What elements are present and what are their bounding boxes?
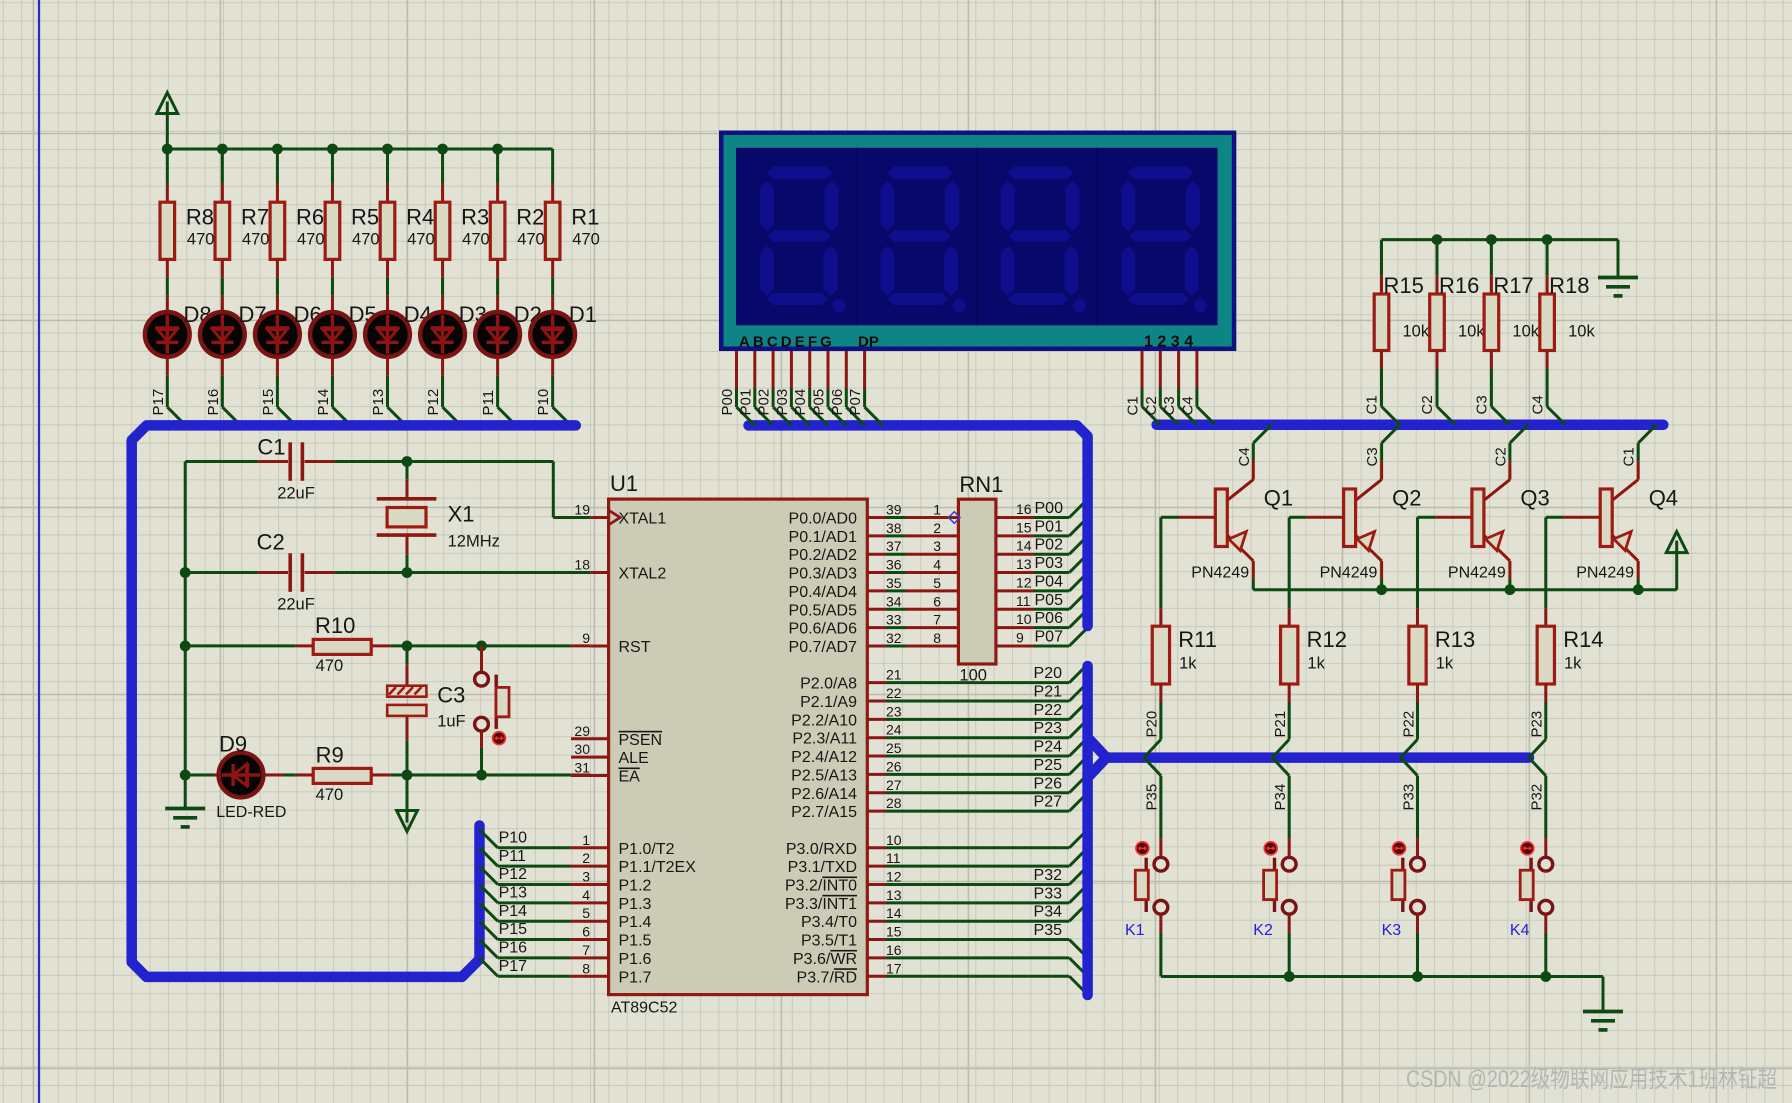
svg-text:15: 15 <box>886 924 902 940</box>
svg-text:32: 32 <box>886 630 902 646</box>
svg-text:30: 30 <box>574 741 590 757</box>
svg-text:P17: P17 <box>499 958 528 975</box>
svg-text:CSDN @2022级物联网应用技术1班林钲超: CSDN @2022级物联网应用技术1班林钲超 <box>1406 1066 1777 1093</box>
junction <box>1486 234 1497 245</box>
svg-text:P04: P04 <box>792 389 809 416</box>
pin P1.4 (5) wire from bus, net P14 <box>480 903 652 931</box>
pin P0.6/AD6 (33) <box>789 612 959 638</box>
capacitor C2 22uF <box>257 530 315 614</box>
wire bus to key K4, net P32 <box>1529 758 1546 839</box>
svg-text:R13: R13 <box>1435 627 1475 652</box>
pin ALE (30) <box>571 741 649 767</box>
svg-text:P1.3: P1.3 <box>619 896 652 913</box>
svg-text:1k: 1k <box>1436 655 1454 673</box>
junction <box>402 641 413 652</box>
svg-text:35: 35 <box>886 575 902 591</box>
wire emitter rail <box>1253 588 1676 591</box>
pin P2.6/A14 (27) wire to bus, net P26 <box>791 774 1087 802</box>
wire R4 to D4 <box>386 259 389 312</box>
junction <box>1542 234 1553 245</box>
svg-text:K2: K2 <box>1253 922 1273 939</box>
pin PSEN (29) <box>571 723 662 749</box>
RN1 pin 6/11 wire, net P05 <box>996 591 1088 609</box>
svg-text:470: 470 <box>187 231 215 249</box>
junction <box>180 641 191 652</box>
svg-text:R9: R9 <box>316 742 344 767</box>
svg-text:U1: U1 <box>610 471 638 496</box>
wire bus to key K1, net P35 <box>1144 758 1161 839</box>
svg-text:P06: P06 <box>1035 610 1064 627</box>
pin P3.5/T1 (15) <box>801 922 1088 958</box>
svg-text:5: 5 <box>933 575 941 591</box>
svg-text:8: 8 <box>933 630 941 646</box>
pin P0.3/AD3 (36) <box>789 557 959 583</box>
svg-text:P13: P13 <box>370 389 387 416</box>
svg-text:RN1: RN1 <box>959 472 1003 497</box>
svg-text:XTAL2: XTAL2 <box>619 566 667 583</box>
svg-text:2: 2 <box>582 850 590 866</box>
svg-text:P2.7/A15: P2.7/A15 <box>791 804 857 821</box>
svg-text:R15: R15 <box>1384 273 1424 298</box>
svg-text:11: 11 <box>886 850 901 866</box>
wire rail to R8 <box>166 149 169 202</box>
svg-text:8: 8 <box>582 960 590 976</box>
svg-text:9: 9 <box>1016 629 1024 645</box>
svg-text:C3: C3 <box>1161 396 1178 415</box>
wire D2 to bus, net P11 <box>498 356 516 425</box>
svg-text:22uF: 22uF <box>277 596 315 614</box>
svg-text:P0.5/AD5: P0.5/AD5 <box>789 602 858 619</box>
svg-text:2: 2 <box>933 520 941 536</box>
display common pin 1 wire, net C1 <box>1125 351 1161 425</box>
pin P0.1/AD1 (38) <box>789 520 959 546</box>
RN1 pin 8/9 wire, net P07 <box>996 628 1088 646</box>
capacitor C3 1uF (electrolytic) <box>387 646 465 775</box>
svg-text:5: 5 <box>582 905 590 921</box>
svg-text:P3.4/T0: P3.4/T0 <box>801 914 857 931</box>
svg-text:P3.2/INT0: P3.2/INT0 <box>785 878 857 895</box>
svg-text:19: 19 <box>574 502 590 518</box>
junction <box>1505 584 1516 595</box>
svg-text:P0.3/AD3: P0.3/AD3 <box>789 566 858 583</box>
svg-text:P02: P02 <box>756 389 773 416</box>
svg-text:16: 16 <box>886 942 902 958</box>
pin P1.7 (8) wire from bus, net P17 <box>480 958 652 986</box>
svg-text:7: 7 <box>933 612 941 628</box>
wire K3 to ground rail <box>1416 915 1419 977</box>
svg-text:28: 28 <box>886 795 902 811</box>
push button K3 <box>1382 838 1425 939</box>
RN1 pin 7/10 wire, net P06 <box>996 609 1088 627</box>
svg-text:16: 16 <box>1016 501 1032 517</box>
wire R5 to D5 <box>331 259 334 312</box>
svg-text:P12: P12 <box>425 389 442 416</box>
transistor Q2 PN4249 (PNP) <box>1289 486 1421 582</box>
ground (left) <box>165 775 205 827</box>
svg-text:P24: P24 <box>1034 739 1063 756</box>
junction <box>180 567 191 578</box>
svg-text:10k: 10k <box>1512 323 1539 341</box>
svg-text:C3: C3 <box>1364 447 1381 466</box>
pin P1.0/T2 (1) wire from bus, net P10 <box>480 829 675 857</box>
svg-text:P1.4: P1.4 <box>619 914 652 931</box>
pin XTAL1 (19) <box>574 502 666 528</box>
wire D4 to bus, net P13 <box>388 356 406 425</box>
svg-text:P2.4/A12: P2.4/A12 <box>791 749 857 766</box>
svg-text:15: 15 <box>1016 519 1032 535</box>
svg-text:P0.6/AD6: P0.6/AD6 <box>789 621 858 638</box>
pin P1.6 (7) wire from bus, net P16 <box>480 940 652 968</box>
wire Q3 base to R13 <box>1416 517 1419 609</box>
svg-text:AT89C52: AT89C52 <box>611 1000 678 1017</box>
svg-text:17: 17 <box>886 960 902 976</box>
svg-text:P21: P21 <box>1272 711 1289 738</box>
svg-text:9: 9 <box>582 630 590 646</box>
pin P2.5/A13 (26) wire to bus, net P25 <box>791 756 1087 784</box>
svg-text:P2.5/A13: P2.5/A13 <box>791 767 857 784</box>
bus P2/P3 vertical segment <box>1082 666 1093 995</box>
svg-text:470: 470 <box>407 231 435 249</box>
RN1 pin 5/12 wire, net P04 <box>996 573 1088 591</box>
wire RST row <box>185 644 590 647</box>
svg-text:C2: C2 <box>1492 447 1509 466</box>
bus top right (display commons) <box>1157 420 1664 431</box>
svg-text:1k: 1k <box>1564 655 1582 673</box>
transistor Q1 PN4249 (PNP) <box>1161 486 1293 582</box>
svg-text:R12: R12 <box>1307 627 1347 652</box>
junction <box>180 770 191 781</box>
junction <box>402 456 413 467</box>
resistor R9 470 <box>313 742 371 804</box>
resistor R16 10k <box>1430 240 1486 351</box>
svg-text:6: 6 <box>933 593 941 609</box>
svg-text:P00: P00 <box>719 389 736 416</box>
pin P2.3/A11 (24) wire to bus, net P23 <box>792 719 1087 747</box>
wire D8 to bus, net P17 <box>167 356 185 425</box>
wire bus to base column (transistor Q2) <box>1356 425 1400 501</box>
bus P1 loop (left) <box>132 425 576 977</box>
svg-text:470: 470 <box>572 231 600 249</box>
transistor Q3 PN4249 (PNP) <box>1418 486 1550 582</box>
wire rail to R1 <box>551 149 554 202</box>
wire rail to R5 <box>331 149 334 202</box>
svg-text:470: 470 <box>462 231 490 249</box>
reset button (push button) <box>475 646 509 775</box>
wire top-right rail <box>1382 238 1619 241</box>
svg-text:P13: P13 <box>499 884 528 901</box>
wire R11 to bus, net P20 <box>1144 684 1161 758</box>
pin P0.2/AD2 (37) <box>789 538 959 564</box>
digit 3 segments <box>1001 167 1086 313</box>
resistor R7 470 <box>215 202 269 259</box>
svg-text:P1.5: P1.5 <box>619 933 652 950</box>
svg-text:10k: 10k <box>1458 323 1485 341</box>
svg-text:C4: C4 <box>1236 447 1253 466</box>
pin P0.4/AD4 (35) <box>789 575 959 601</box>
pin P2.7/A15 (28) wire to bus, net P27 <box>791 793 1087 821</box>
svg-text:P14: P14 <box>499 903 528 920</box>
pin RST (9) <box>582 630 651 656</box>
wire R12 to bus, net P21 <box>1272 684 1289 758</box>
svg-text:37: 37 <box>886 538 902 554</box>
svg-text:R10: R10 <box>315 613 355 638</box>
wire D7 to bus, net P16 <box>222 356 240 425</box>
wire Q3 emitter to rail <box>1508 561 1511 590</box>
svg-text:470: 470 <box>352 231 380 249</box>
wire R8 to D8 <box>166 259 169 312</box>
pin P2.4/A12 (25) wire to bus, net P24 <box>791 738 1087 766</box>
svg-text:P11: P11 <box>499 848 526 865</box>
junction <box>272 144 283 155</box>
svg-text:470: 470 <box>316 786 344 804</box>
resistor R15 10k <box>1374 240 1430 351</box>
svg-text:P2.2/A10: P2.2/A10 <box>791 712 857 729</box>
resistor R8 470 <box>160 202 214 259</box>
svg-text:P34: P34 <box>1034 904 1063 921</box>
svg-text:R17: R17 <box>1493 273 1533 298</box>
svg-text:EA: EA <box>619 769 641 786</box>
pin P0.0/AD0 (39) <box>789 502 959 528</box>
svg-text:X1: X1 <box>448 502 475 527</box>
MCU U1 AT89C52 body <box>609 471 868 1017</box>
display pin E wire, net P04 <box>792 351 828 425</box>
power +5V arrow (LED array) <box>157 93 178 150</box>
svg-text:10: 10 <box>1016 611 1032 627</box>
svg-text:P2.3/A11: P2.3/A11 <box>792 731 857 748</box>
svg-text:R11: R11 <box>1178 627 1217 652</box>
resistor R12 1k <box>1281 609 1347 684</box>
svg-text:P15: P15 <box>499 921 528 938</box>
junction <box>1633 584 1644 595</box>
svg-text:1k: 1k <box>1179 655 1197 673</box>
display pin DP wire, net P07 <box>847 351 883 425</box>
ground (top right) <box>1598 240 1638 296</box>
wire R2 to D2 <box>496 259 499 312</box>
svg-text:P14: P14 <box>315 389 332 416</box>
svg-text:14: 14 <box>1016 538 1032 554</box>
svg-text:P16: P16 <box>205 389 222 416</box>
svg-text:Q3: Q3 <box>1520 486 1549 511</box>
svg-text:13: 13 <box>886 887 902 903</box>
svg-text:R18: R18 <box>1549 273 1589 298</box>
svg-text:P32: P32 <box>1529 784 1546 811</box>
svg-text:11: 11 <box>1016 593 1031 609</box>
svg-text:P27: P27 <box>1034 794 1063 811</box>
resistor R17 10k <box>1484 240 1540 351</box>
resistor R14 1k <box>1537 609 1603 684</box>
junction <box>1284 971 1295 982</box>
wire R15 to bus, net C1 <box>1382 351 1400 425</box>
svg-text:R8: R8 <box>186 205 214 230</box>
wire power rail <box>167 148 552 151</box>
svg-text:P0.4/AD4: P0.4/AD4 <box>789 584 858 601</box>
svg-text:P23: P23 <box>1034 720 1063 737</box>
display pin B wire, net P01 <box>737 351 773 425</box>
svg-text:39: 39 <box>886 502 902 518</box>
svg-text:18: 18 <box>574 557 590 573</box>
svg-text:P15: P15 <box>260 389 277 416</box>
svg-text:PN4249: PN4249 <box>1448 565 1506 582</box>
svg-text:P25: P25 <box>1034 757 1063 774</box>
svg-text:1: 1 <box>582 832 590 848</box>
junction <box>217 144 228 155</box>
svg-text:3: 3 <box>582 869 590 885</box>
pin P1.2 (3) wire from bus, net P12 <box>480 866 652 894</box>
wire Q1 emitter to rail <box>1252 561 1255 590</box>
svg-text:P3.3/INT1: P3.3/INT1 <box>785 896 857 913</box>
wire R18 to bus, net C4 <box>1547 351 1565 425</box>
LED D6 <box>255 302 322 357</box>
svg-text:C2: C2 <box>257 530 285 555</box>
svg-text:23: 23 <box>886 703 902 719</box>
pin P2.2/A10 (23) wire to bus, net P22 <box>791 701 1087 729</box>
pin P1.3 (4) wire from bus, net P13 <box>480 884 652 912</box>
junction <box>1376 584 1387 595</box>
capacitor C1 22uF <box>257 435 314 503</box>
push button K2 <box>1253 838 1296 939</box>
svg-text:P3.7/RD: P3.7/RD <box>797 969 857 986</box>
wire Q4 base to R14 <box>1544 517 1547 609</box>
wire D5 to bus, net P14 <box>332 356 350 425</box>
pin P3.4/T0 (14) <box>801 903 1088 931</box>
svg-text:P3.1/TXD: P3.1/TXD <box>788 859 857 876</box>
display common pin 2 wire, net C2 <box>1143 351 1179 425</box>
wire R14 to bus, net P23 <box>1529 684 1546 758</box>
svg-text:P22: P22 <box>1400 711 1417 738</box>
svg-text:24: 24 <box>886 722 902 738</box>
svg-text:P2.0/A8: P2.0/A8 <box>800 676 857 693</box>
LED D8 <box>145 302 212 357</box>
svg-text:P10: P10 <box>535 389 552 416</box>
svg-text:Q2: Q2 <box>1392 486 1421 511</box>
junction <box>437 144 448 155</box>
svg-text:R1: R1 <box>571 205 599 230</box>
display pin F wire, net P05 <box>811 351 847 425</box>
svg-text:27: 27 <box>886 777 902 793</box>
svg-text:P1.0/T2: P1.0/T2 <box>619 841 675 858</box>
svg-text:P0.7/AD7: P0.7/AD7 <box>789 639 858 656</box>
junction <box>476 770 487 781</box>
svg-text:10k: 10k <box>1568 323 1595 341</box>
svg-text:P0.0/AD0: P0.0/AD0 <box>789 511 858 528</box>
pin P3.7/RD (17) <box>797 960 1088 994</box>
svg-text:R14: R14 <box>1563 627 1603 652</box>
wire left vertical rail <box>184 462 187 776</box>
svg-text:P12: P12 <box>499 866 528 883</box>
wire R13 to bus, net P22 <box>1401 684 1418 758</box>
svg-text:R6: R6 <box>296 205 324 230</box>
pin P0.5/AD5 (34) <box>789 593 959 619</box>
svg-text:P07: P07 <box>847 389 864 416</box>
display common pin 3 wire, net C3 <box>1161 351 1197 425</box>
svg-text:PN4249: PN4249 <box>1191 565 1249 582</box>
crystal X1 12MHz <box>377 462 500 573</box>
svg-text:C1: C1 <box>1125 396 1142 415</box>
display pin A wire, net P00 <box>719 351 755 425</box>
svg-text:P34: P34 <box>1272 784 1289 811</box>
wire C2 row <box>185 571 590 574</box>
svg-text:29: 29 <box>574 723 590 739</box>
pin XTAL2 (18) <box>574 557 666 583</box>
svg-text:3: 3 <box>933 538 941 554</box>
7-segment display module (4 digit) <box>719 131 1236 352</box>
pin P2.0/A8 (21) wire to bus, net P20 <box>800 664 1088 692</box>
wire bus to key K3, net P33 <box>1401 758 1418 839</box>
junction <box>382 144 393 155</box>
svg-text:P21: P21 <box>1034 684 1063 701</box>
svg-text:470: 470 <box>517 231 545 249</box>
svg-text:P2.1/A9: P2.1/A9 <box>800 694 857 711</box>
pin P3.3/INT1 (13) <box>785 885 1088 913</box>
svg-text:P26: P26 <box>1034 775 1063 792</box>
wire Q4 emitter to rail <box>1637 561 1640 590</box>
svg-text:470: 470 <box>316 657 344 675</box>
svg-text:PSEN: PSEN <box>619 732 663 749</box>
RN1 pin 1 marker <box>949 512 961 524</box>
svg-text:P16: P16 <box>499 940 528 957</box>
bus display P0 segment + vertical <box>749 425 1088 626</box>
svg-text:22: 22 <box>886 685 902 701</box>
svg-text:Q4: Q4 <box>1649 486 1678 511</box>
resistor R11 1k <box>1152 609 1217 684</box>
svg-text:P11: P11 <box>480 390 497 416</box>
digit 4 segments <box>1121 167 1206 313</box>
svg-text:13: 13 <box>1016 556 1032 572</box>
svg-text:12: 12 <box>886 869 902 885</box>
svg-text:C4: C4 <box>1179 396 1196 415</box>
svg-text:7: 7 <box>582 942 590 958</box>
display common pin 4 wire, net C4 <box>1179 351 1215 425</box>
svg-text:D1: D1 <box>569 302 597 327</box>
svg-text:K4: K4 <box>1510 922 1530 939</box>
svg-text:P0.2/AD2: P0.2/AD2 <box>789 547 858 564</box>
svg-text:P35: P35 <box>1144 784 1161 811</box>
LED D1 <box>530 302 597 357</box>
svg-text:PN4249: PN4249 <box>1320 565 1378 582</box>
svg-text:1uF: 1uF <box>437 713 465 731</box>
svg-text:R4: R4 <box>406 205 434 230</box>
junction <box>327 144 338 155</box>
svg-text:10: 10 <box>886 832 902 848</box>
wire K1 to ground rail <box>1159 915 1162 977</box>
wire rail to R6 <box>276 149 279 202</box>
svg-text:P03: P03 <box>1035 555 1064 572</box>
svg-text:1234: 1234 <box>1144 334 1198 351</box>
svg-text:36: 36 <box>886 557 902 573</box>
push button K4 <box>1510 838 1553 939</box>
resistor R13 1k <box>1409 609 1475 684</box>
push button K1 <box>1125 838 1168 939</box>
pin P3.6/WR (16) <box>793 942 1088 976</box>
wire R16 to bus, net C2 <box>1437 351 1455 425</box>
pin EA (31) <box>571 760 640 786</box>
power +5V arrow (emitter rail) <box>1666 532 1687 590</box>
wire K2 to ground rail <box>1288 915 1291 977</box>
pin P3.2/INT0 (12) <box>785 866 1088 894</box>
svg-text:12MHz: 12MHz <box>448 532 500 550</box>
wire C1 row <box>185 462 590 518</box>
svg-text:1: 1 <box>933 502 941 518</box>
svg-text:C1: C1 <box>1621 447 1638 466</box>
svg-text:P3.5/T1: P3.5/T1 <box>801 933 857 950</box>
svg-text:K3: K3 <box>1382 922 1402 939</box>
junction <box>402 770 413 781</box>
svg-text:P2.6/A14: P2.6/A14 <box>791 786 857 803</box>
svg-text:Q1: Q1 <box>1264 486 1293 511</box>
wire rail to R2 <box>496 149 499 202</box>
resistor R3 470 <box>435 202 489 259</box>
pin P1.5 (6) wire from bus, net P15 <box>480 921 652 949</box>
